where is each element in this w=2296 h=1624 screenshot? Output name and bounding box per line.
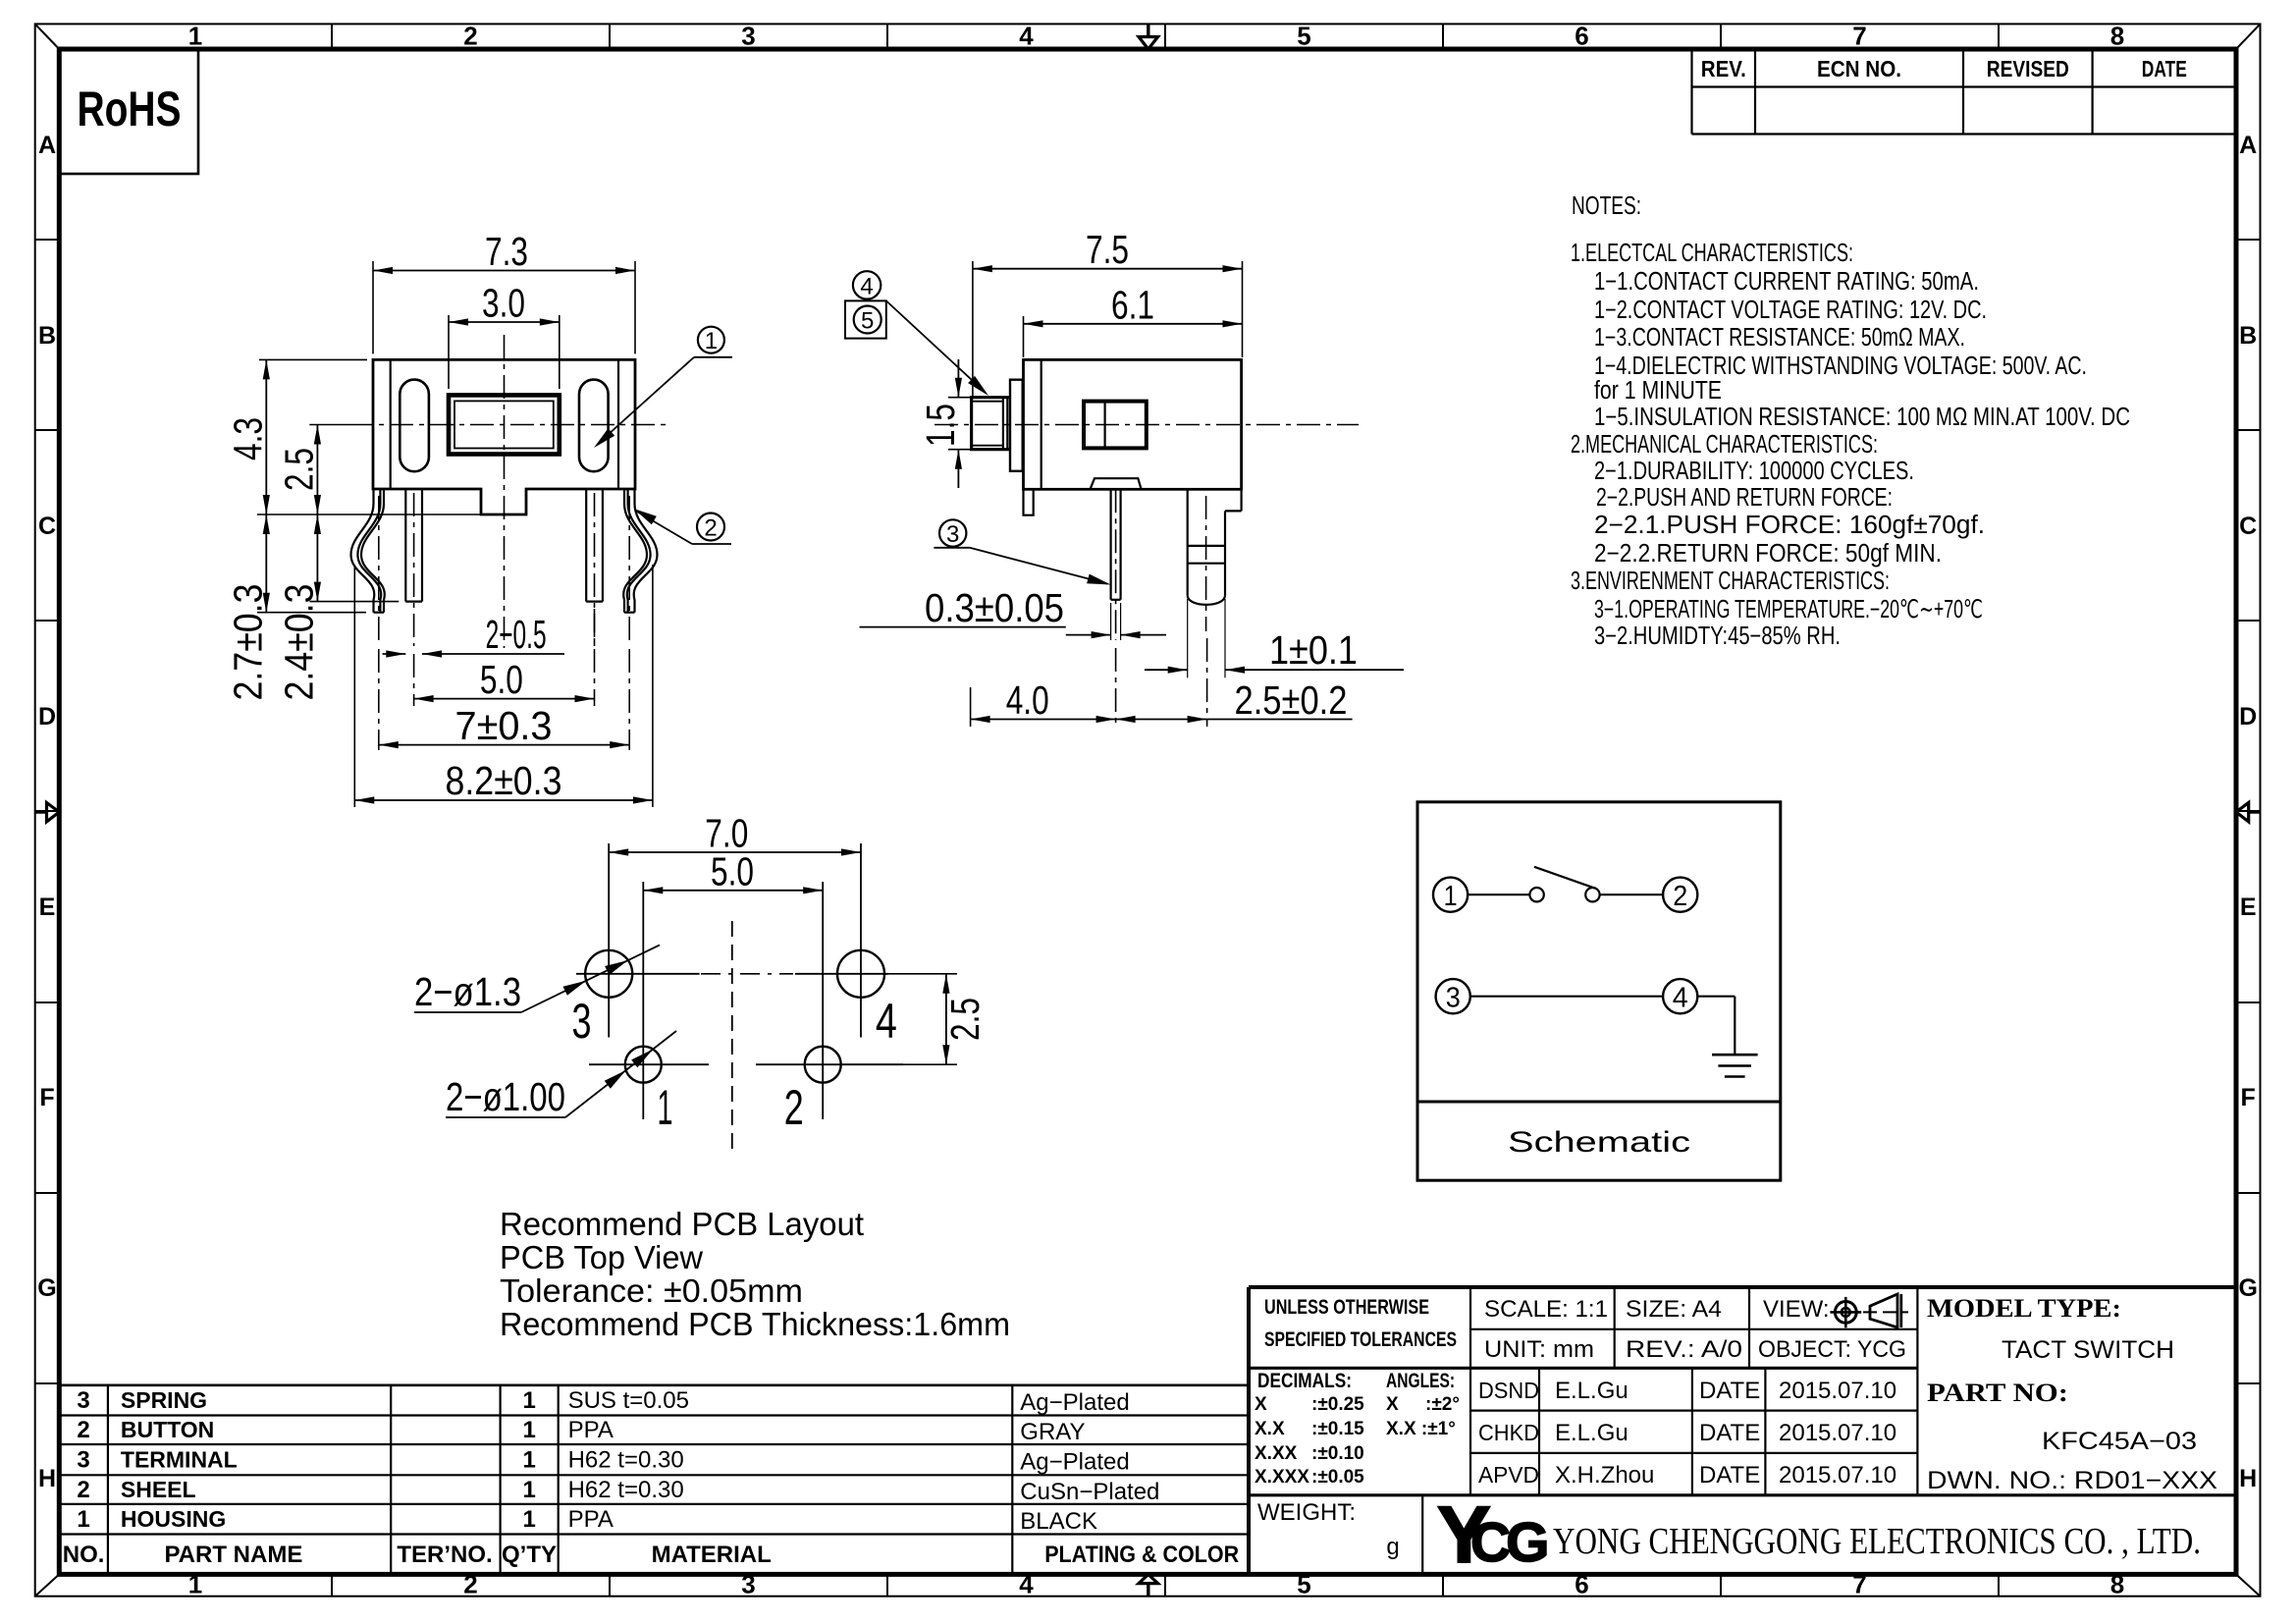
svg-text:2−ø1.3: 2−ø1.3 <box>414 969 521 1014</box>
dimension 2.5 pcb <box>884 973 957 975</box>
svg-text:H62 t=0.30: H62 t=0.30 <box>568 1447 684 1474</box>
svg-text:CHKD: CHKD <box>1478 1420 1539 1445</box>
border corner diagonals <box>35 24 60 49</box>
svg-text:2: 2 <box>784 1080 804 1135</box>
front view left clip terminal <box>351 489 375 613</box>
svg-text:SPECIFIED TOLERANCES: SPECIFIED TOLERANCES <box>1264 1328 1457 1351</box>
svg-text:2: 2 <box>463 21 477 50</box>
svg-text:2.MECHANICAL CHARACTERISTICS:: 2.MECHANICAL CHARACTERISTICS: <box>1571 431 1878 459</box>
svg-text:PPA: PPA <box>568 1506 614 1533</box>
svg-text:ANGLES:: ANGLES: <box>1386 1370 1455 1392</box>
schematic pin 3 <box>1436 979 1470 1013</box>
schematic wire 3 to 4 <box>1470 996 1663 998</box>
svg-text:1: 1 <box>658 1080 673 1135</box>
schematic contact a <box>1529 888 1543 901</box>
side view pin shoulder <box>1091 478 1142 489</box>
svg-text:X: X <box>1255 1394 1267 1415</box>
svg-text:2−ø1.00: 2−ø1.00 <box>446 1074 565 1119</box>
svg-text:1: 1 <box>523 1417 536 1443</box>
svg-text::±0.10: :±0.10 <box>1311 1443 1364 1464</box>
side view contact block <box>1084 402 1147 449</box>
pcb hole 2 <box>805 1047 841 1083</box>
schematic box <box>1417 802 1781 1180</box>
svg-text:DATE: DATE <box>1699 1378 1760 1404</box>
svg-text:2.7±0.3: 2.7±0.3 <box>226 584 271 701</box>
svg-text:7±0.3: 7±0.3 <box>455 703 553 748</box>
svg-text:2.5: 2.5 <box>277 448 322 491</box>
svg-text:1−5.INSULATION RESISTANCE: 1: 1−5.INSULATION RESISTANCE: 100 MΩ MIN.AT… <box>1594 404 2130 431</box>
svg-text:3−2.HUMIDTY:45−85% RH.: 3−2.HUMIDTY:45−85% RH. <box>1594 623 1841 650</box>
svg-text:UNIT: mm: UNIT: mm <box>1484 1336 1594 1363</box>
svg-text:X.XXX: X.XXX <box>1255 1467 1309 1488</box>
svg-text:4: 4 <box>860 274 873 300</box>
svg-text:ECN NO.: ECN NO. <box>1817 56 1901 81</box>
svg-text:KFC45A−03: KFC45A−03 <box>2042 1428 2197 1455</box>
svg-text:4: 4 <box>876 994 897 1049</box>
svg-text:REVISED: REVISED <box>1987 56 2069 81</box>
svg-text:SCALE: 1:1: SCALE: 1:1 <box>1484 1296 1608 1323</box>
view symbol first-angle target <box>1835 1302 1856 1324</box>
side view flange plate <box>1010 380 1023 471</box>
front view left slot <box>400 380 429 472</box>
svg-text:5: 5 <box>1297 21 1310 50</box>
svg-text:PLATING & COLOR: PLATING & COLOR <box>1044 1542 1239 1568</box>
svg-text:REV.: A/0: REV.: A/0 <box>1626 1336 1742 1363</box>
svg-text:E: E <box>2240 893 2257 921</box>
svg-text:1: 1 <box>523 1387 536 1414</box>
svg-text:1.5: 1.5 <box>918 404 963 447</box>
svg-text:1: 1 <box>705 328 718 354</box>
svg-text:for 1 MINUTE: for 1 MINUTE <box>1594 377 1722 405</box>
schematic ground symbol <box>1712 1054 1758 1056</box>
dimension 2.4±0.3 <box>316 514 318 602</box>
svg-text:DATE: DATE <box>2142 56 2187 81</box>
dimension 1±0.1 <box>1145 669 1188 671</box>
dimension 4.0 <box>970 687 972 727</box>
front view right pin <box>585 489 587 602</box>
view symbol cone <box>1870 1294 1897 1327</box>
schematic switch lever <box>1534 867 1595 889</box>
svg-text::±0.15: :±0.15 <box>1311 1419 1364 1439</box>
svg-text:G: G <box>37 1274 56 1302</box>
svg-text:2−2.PUSH AND RETURN FORCE:: 2−2.PUSH AND RETURN FORCE: <box>1596 484 1893 512</box>
svg-text:MODEL TYPE:: MODEL TYPE: <box>1927 1294 2121 1323</box>
front view body inner walls <box>390 359 392 489</box>
svg-text:TERMINAL: TERMINAL <box>121 1447 238 1473</box>
svg-text:4.3: 4.3 <box>226 417 271 460</box>
svg-text:2015.07.10: 2015.07.10 <box>1779 1420 1896 1446</box>
svg-text:2: 2 <box>77 1417 89 1443</box>
svg-text:A: A <box>38 132 56 159</box>
svg-text:6: 6 <box>1575 21 1588 50</box>
svg-text:HOUSING: HOUSING <box>121 1506 226 1532</box>
svg-text:4: 4 <box>1019 1569 1034 1598</box>
svg-text:Ag−Plated: Ag−Plated <box>1020 1449 1129 1476</box>
svg-text:2: 2 <box>704 515 717 542</box>
svg-text:DSND: DSND <box>1478 1378 1539 1403</box>
svg-text:GRAY: GRAY <box>1020 1419 1085 1445</box>
schematic wire contact to 2 <box>1600 893 1664 895</box>
svg-text:NO.: NO. <box>63 1542 105 1568</box>
dimension 7±0.3 <box>379 744 629 746</box>
svg-text:Recommend PCB Thickness:1.6m: Recommend PCB Thickness:1.6mm <box>500 1306 1010 1342</box>
svg-text:NOTES:: NOTES: <box>1572 192 1641 220</box>
fold mark left <box>35 810 47 813</box>
side view button <box>972 398 1010 450</box>
svg-text:4.0: 4.0 <box>1006 677 1049 723</box>
svg-text:H: H <box>38 1465 56 1492</box>
svg-text:E.L.Gu: E.L.Gu <box>1555 1420 1629 1446</box>
zone ticks bottom <box>331 1574 333 1596</box>
svg-text:BLACK: BLACK <box>1020 1508 1097 1535</box>
svg-text:F: F <box>2241 1084 2256 1111</box>
dimension 8.2±0.3 <box>354 799 653 801</box>
side view body <box>1024 359 1242 489</box>
svg-text:PPA: PPA <box>568 1417 614 1443</box>
svg-text:1−1.CONTACT CURRENT RATING:: 1−1.CONTACT CURRENT RATING: 50mA. <box>1594 268 1979 296</box>
svg-text:3: 3 <box>1446 983 1461 1014</box>
svg-text:D: D <box>38 703 56 731</box>
schematic wire 4 to ground <box>1697 996 1735 998</box>
fold mark top <box>1147 24 1149 36</box>
svg-text:TER’NO.: TER’NO. <box>397 1542 492 1568</box>
svg-text:BUTTON: BUTTON <box>121 1417 214 1442</box>
fold mark bottom <box>1147 1584 1149 1597</box>
svg-text:MATERIAL: MATERIAL <box>652 1542 772 1568</box>
RoHS box <box>59 49 198 174</box>
svg-text:2.5: 2.5 <box>942 998 988 1041</box>
svg-text:OBJECT: YCG: OBJECT: YCG <box>1758 1336 1906 1363</box>
schematic wire 1 to contact <box>1468 893 1529 895</box>
svg-text:RoHS: RoHS <box>78 81 182 136</box>
svg-text:1: 1 <box>188 1569 202 1598</box>
dimension 1.5 <box>948 397 1011 399</box>
dimension 7.0 <box>609 851 861 853</box>
zone ticks top <box>331 24 333 49</box>
parts table frame <box>59 1384 1249 1387</box>
svg-text:1: 1 <box>523 1477 536 1503</box>
svg-text:2015.07.10: 2015.07.10 <box>1779 1378 1896 1404</box>
side view horizontal centre line <box>934 424 1359 426</box>
svg-text:5: 5 <box>861 308 874 335</box>
svg-text:X.XX: X.XX <box>1255 1443 1298 1464</box>
svg-text:X.X: X.X <box>1255 1419 1285 1439</box>
svg-text:PCB Top View: PCB Top View <box>500 1239 703 1275</box>
pcb hole 3 <box>585 950 632 998</box>
svg-text:PART NAME: PART NAME <box>164 1542 302 1568</box>
title weight box divider <box>1421 1495 1423 1575</box>
svg-text:2: 2 <box>77 1477 89 1503</box>
svg-text:F: F <box>39 1084 54 1111</box>
svg-text:8.2±0.3: 8.2±0.3 <box>446 758 562 803</box>
svg-text:2.5±0.2: 2.5±0.2 <box>1235 677 1348 723</box>
front view horizontal centre line <box>349 424 670 426</box>
svg-text:REV.: REV. <box>1701 56 1746 81</box>
svg-text:5.0: 5.0 <box>711 849 754 894</box>
svg-text:2−0.5: 2−0.5 <box>486 612 547 657</box>
schematic pin 2 <box>1663 878 1697 912</box>
dimension 5.0 pcb <box>643 890 823 892</box>
svg-text:3: 3 <box>741 21 755 50</box>
svg-text:DECIMALS:: DECIMALS: <box>1257 1370 1352 1392</box>
side view inner wall <box>1041 359 1042 489</box>
svg-text:1−4.DIELECTRIC WITHSTANDING: 1−4.DIELECTRIC WITHSTANDING VOLTAGE: 500… <box>1594 352 2087 380</box>
svg-text::±0.05: :±0.05 <box>1311 1467 1364 1488</box>
svg-text:7.5: 7.5 <box>1086 227 1129 272</box>
svg-text:1−2.CONTACT VOLTAGE RATING:: 1−2.CONTACT VOLTAGE RATING: 12V. DC. <box>1594 297 1987 324</box>
svg-text:WEIGHT:: WEIGHT: <box>1257 1499 1356 1526</box>
front view button inner <box>454 401 554 448</box>
svg-text:B: B <box>38 322 56 350</box>
svg-text:H: H <box>2239 1465 2257 1492</box>
front view left pin <box>404 489 406 602</box>
callout 1 balloon <box>698 327 724 353</box>
schematic pin 4 <box>1663 979 1697 1013</box>
dimension 2.7±0.3 <box>265 514 267 613</box>
svg-text:g: g <box>1386 1534 1399 1560</box>
svg-text:3: 3 <box>77 1387 89 1414</box>
svg-text:VIEW:: VIEW: <box>1763 1296 1830 1323</box>
svg-text:Q’TY: Q’TY <box>502 1542 557 1568</box>
svg-text:Tolerance: ±0.05mm: Tolerance: ±0.05mm <box>500 1272 803 1309</box>
svg-text:3: 3 <box>77 1447 89 1474</box>
svg-text:SHEEL: SHEEL <box>121 1477 196 1502</box>
pcb hole 1 <box>625 1047 662 1083</box>
callout 4 balloon <box>853 271 881 298</box>
fold mark right <box>2249 810 2261 813</box>
side view clip leg <box>1240 489 1242 511</box>
svg-text:SPRING: SPRING <box>121 1387 207 1413</box>
svg-text:Recommend PCB Layout: Recommend PCB Layout <box>500 1206 864 1242</box>
svg-text:SUS t=0.05: SUS t=0.05 <box>568 1387 689 1414</box>
svg-text:1: 1 <box>188 21 202 50</box>
callout 5 balloon <box>845 300 886 338</box>
side view middle pin <box>1109 489 1111 600</box>
title dsnd row dividers <box>1538 1368 1540 1495</box>
dimension 2.5±0.2 <box>1116 719 1207 721</box>
svg-text:1.ELECTCAL CHARACTERISTICS:: 1.ELECTCAL CHARACTERISTICS: <box>1571 240 1853 267</box>
front view vertical centre line <box>504 335 506 648</box>
svg-text:7: 7 <box>1852 21 1866 50</box>
svg-text:B: B <box>2239 322 2257 350</box>
svg-text:3: 3 <box>572 994 592 1049</box>
stem bottom extension line <box>257 514 483 515</box>
svg-text:3.ENVIRENMENT CHARACTERISTICS: 3.ENVIRENMENT CHARACTERISTICS: <box>1571 568 1890 595</box>
svg-text:X: X <box>1386 1394 1399 1415</box>
svg-text:X.X :±1°: X.X :±1° <box>1386 1419 1456 1439</box>
svg-text:2−1.DURABILITY: 100000 CYCLE: 2−1.DURABILITY: 100000 CYCLES. <box>1594 458 1914 485</box>
callout 2 balloon <box>697 514 724 541</box>
front view right slot <box>579 380 609 472</box>
svg-text:3.0: 3.0 <box>482 281 525 326</box>
svg-text:8: 8 <box>2110 21 2124 50</box>
svg-text:DATE: DATE <box>1699 1420 1760 1446</box>
svg-text::±2°: :±2° <box>1425 1394 1460 1415</box>
dimension 2.5 front <box>309 424 349 426</box>
front view button outer <box>449 395 560 454</box>
revision table <box>1690 49 1692 135</box>
svg-text:UNLESS OTHERWISE: UNLESS OTHERWISE <box>1264 1296 1429 1319</box>
dimension 6.1 <box>1023 316 1025 357</box>
svg-text:1: 1 <box>523 1506 536 1533</box>
title block frame <box>1249 1285 2236 1289</box>
svg-text:6.1: 6.1 <box>1111 283 1154 328</box>
svg-text:G: G <box>2238 1274 2257 1302</box>
svg-text:APVD: APVD <box>1478 1462 1539 1488</box>
svg-text:1: 1 <box>1444 881 1458 912</box>
svg-text:YONG CHENGGONG ELECTRONICS: YONG CHENGGONG ELECTRONICS CO. , LTD. <box>1553 1521 2201 1562</box>
svg-text:E.L.Gu: E.L.Gu <box>1555 1378 1629 1404</box>
svg-text:5.0: 5.0 <box>480 657 523 702</box>
callout 3 balloon <box>939 519 966 546</box>
svg-text:1: 1 <box>77 1506 89 1533</box>
svg-text:3: 3 <box>946 521 959 548</box>
svg-text:7.3: 7.3 <box>485 229 528 274</box>
dimension 2-0.5 <box>383 653 406 655</box>
svg-text:D: D <box>2239 703 2257 731</box>
front view body outline <box>373 359 635 514</box>
svg-text:1: 1 <box>523 1447 536 1474</box>
svg-text:DWN. NO.: RD01−XXX: DWN. NO.: RD01−XXX <box>1927 1467 2217 1494</box>
svg-text:SIZE: A4: SIZE: A4 <box>1626 1296 1722 1323</box>
svg-text:4: 4 <box>1019 21 1034 50</box>
svg-text:2: 2 <box>1673 881 1687 912</box>
svg-text:2015.07.10: 2015.07.10 <box>1779 1462 1896 1489</box>
dimension 4.3 <box>259 358 367 360</box>
svg-text:1±0.1: 1±0.1 <box>1269 627 1358 673</box>
pcb hole centre lines <box>576 973 700 975</box>
svg-text:C: C <box>2239 513 2257 540</box>
front view right clip terminal <box>634 489 658 613</box>
svg-text:2: 2 <box>463 1569 477 1598</box>
svg-text:5: 5 <box>1297 1569 1310 1598</box>
svg-text:DATE: DATE <box>1699 1462 1760 1489</box>
svg-text:1−3.CONTACT RESISTANCE: 50mΩ: 1−3.CONTACT RESISTANCE: 50mΩ MAX. <box>1594 324 1965 352</box>
svg-text::±0.25: :±0.25 <box>1311 1394 1364 1415</box>
svg-text:CuSn−Plated: CuSn−Plated <box>1020 1479 1159 1505</box>
svg-text:PART NO:: PART NO: <box>1927 1379 2068 1407</box>
schematic contact b <box>1585 888 1599 901</box>
svg-text:C: C <box>38 513 56 540</box>
svg-text:7: 7 <box>1852 1569 1866 1598</box>
svg-text:8: 8 <box>2110 1569 2124 1598</box>
svg-text:6: 6 <box>1575 1569 1588 1598</box>
pcb hole 4 <box>837 950 884 998</box>
svg-text:2−2.1.PUSH FORCE: 160gf: 2−2.1.PUSH FORCE: 160gf±70gf. <box>1594 512 1985 539</box>
svg-text:CG: CG <box>1470 1511 1546 1574</box>
svg-text:H62 t=0.30: H62 t=0.30 <box>568 1477 684 1503</box>
dimension 5.0 front <box>414 698 595 700</box>
zone ticks right <box>2236 239 2261 241</box>
svg-text:A: A <box>2239 132 2257 159</box>
svg-text:TACT SWITCH: TACT SWITCH <box>2002 1336 2174 1364</box>
svg-text:3−1.OPERATING TEMPERATURE.−20: 3−1.OPERATING TEMPERATURE.−20℃∼+70℃ <box>1594 596 1983 623</box>
side view left foot <box>1024 489 1034 514</box>
svg-text:E: E <box>39 893 56 921</box>
svg-text:Schematic: Schematic <box>1508 1126 1690 1159</box>
svg-text:4: 4 <box>1673 983 1688 1014</box>
zone ticks left <box>35 239 60 241</box>
svg-text:2−2.2.RETURN FORCE: 50gf MI: 2−2.2.RETURN FORCE: 50gf MIN. <box>1594 540 1942 568</box>
schematic pin 1 <box>1433 878 1468 912</box>
dimension 7.3 <box>372 261 374 353</box>
svg-text:Ag−Plated: Ag−Plated <box>1020 1389 1129 1416</box>
svg-text:3: 3 <box>741 1569 755 1598</box>
dimension 3.0 <box>448 315 450 389</box>
pcb centre line vertical <box>731 921 733 1150</box>
dimension 7.5 <box>972 261 974 398</box>
svg-text:X.H.Zhou: X.H.Zhou <box>1555 1462 1654 1489</box>
svg-text:0.3±0.05: 0.3±0.05 <box>925 585 1064 630</box>
